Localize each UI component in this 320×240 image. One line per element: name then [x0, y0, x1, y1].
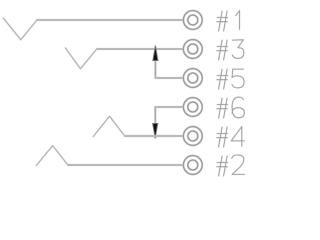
wire pin 6	[155, 106, 183, 108]
label #5	[217, 69, 244, 89]
terminal J2 outer ring	[183, 156, 202, 175]
wire pin 5	[155, 77, 183, 79]
label #3	[217, 40, 244, 60]
wire pin 1	[37, 19, 184, 21]
wire pin 4	[125, 135, 184, 137]
terminal J3 inner ring	[188, 44, 198, 54]
contact spring (tip) for pin 2	[36, 146, 68, 166]
switch arrow pin 5 to pin 3	[153, 46, 158, 61]
switch arrow pin 6 to pin 4	[153, 123, 158, 138]
contact spring (tip) for pin 1	[3, 18, 37, 40]
terminal J4 inner ring	[188, 131, 198, 141]
terminal J1 outer ring	[183, 11, 202, 30]
contact spring (ring) for pin 3	[65, 48, 96, 69]
contact spring (ring) for pin 4	[93, 116, 125, 136]
label #1	[217, 11, 240, 31]
terminal J5 outer ring	[183, 69, 202, 88]
terminal J2 inner ring	[188, 160, 198, 170]
wire pin 2	[68, 164, 183, 166]
label #2	[217, 155, 244, 176]
wire pin 3	[97, 48, 184, 50]
terminal J4 outer ring	[183, 127, 202, 146]
terminal J6 outer ring	[183, 98, 202, 117]
terminal J3 outer ring	[183, 40, 202, 59]
wire pin 6 dropper	[154, 107, 156, 137]
label #4	[217, 127, 245, 147]
terminal J5 inner ring	[188, 73, 198, 83]
label #6	[217, 97, 244, 118]
terminal J1 inner ring	[188, 15, 198, 25]
wire pin 5 riser	[154, 47, 156, 78]
terminal J6 inner ring	[188, 102, 198, 112]
